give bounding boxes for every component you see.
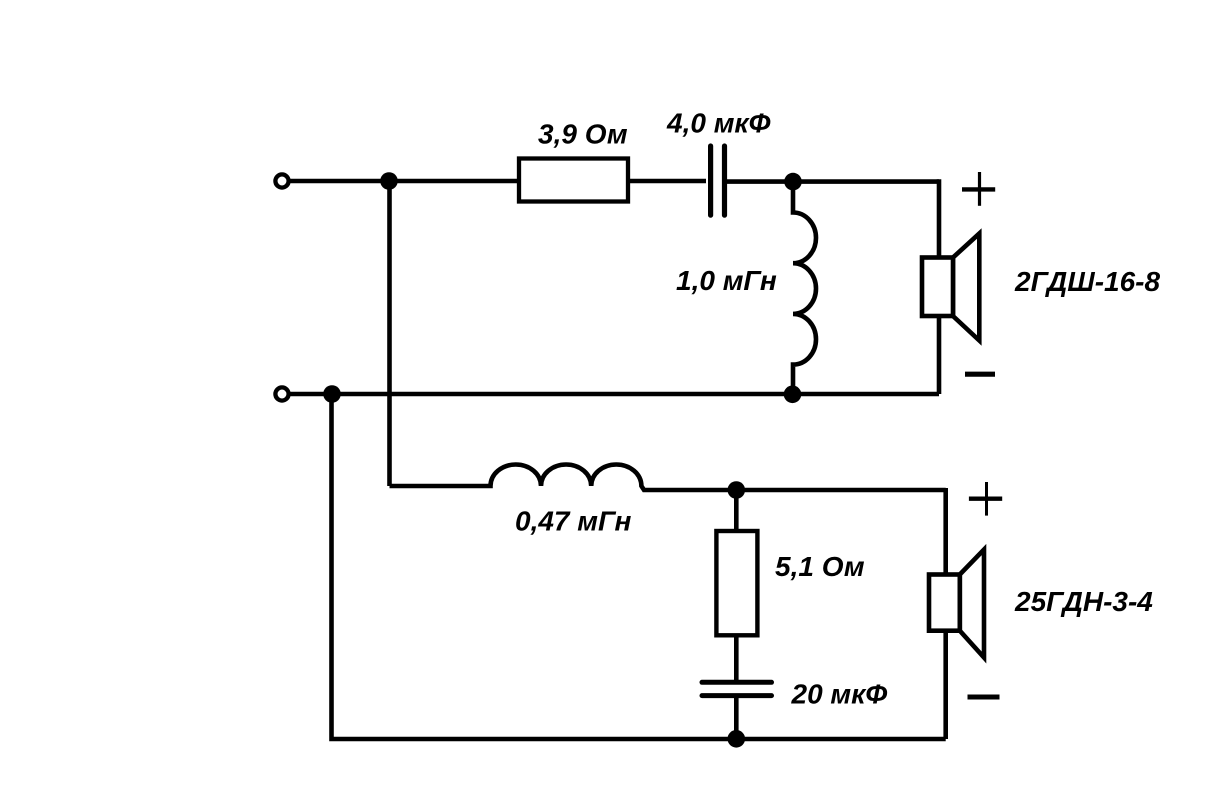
svg-text:5,1 Ом: 5,1 Ом bbox=[775, 551, 865, 582]
svg-text:3,9 Ом: 3,9 Ом bbox=[538, 118, 628, 149]
svg-text:4,0 мкФ: 4,0 мкФ bbox=[666, 108, 771, 139]
svg-text:0,47 мГн: 0,47 мГн bbox=[515, 506, 631, 537]
svg-text:20 мкФ: 20 мкФ bbox=[791, 679, 888, 710]
svg-text:2ГДШ-16-8: 2ГДШ-16-8 bbox=[1014, 266, 1160, 297]
svg-text:1,0 мГн: 1,0 мГн bbox=[676, 265, 777, 296]
svg-text:25ГДН-3-4: 25ГДН-3-4 bbox=[1014, 586, 1153, 617]
